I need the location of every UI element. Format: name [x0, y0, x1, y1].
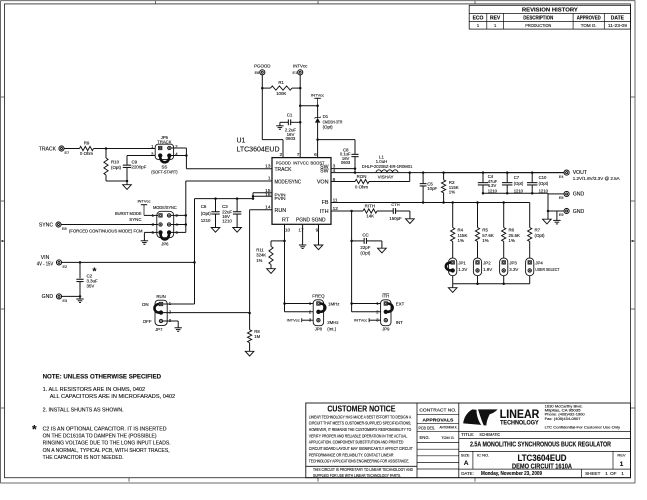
svg-text:CIRCUIT BOARD LAYOUT MAY SIGNI: CIRCUIT BOARD LAYOUT MAY SIGNIFICANTLY A…	[309, 446, 413, 451]
svg-text:R9: R9	[84, 141, 90, 146]
svg-text:DHLP-2020BZ-ER-1R0M01: DHLP-2020BZ-ER-1R0M01	[362, 164, 413, 169]
svg-text:*: *	[32, 423, 37, 437]
svg-text:2.5A MONOLITHIC SYNCHRONOUS BU: 2.5A MONOLITHIC SYNCHRONOUS BUCK REGULAT…	[470, 441, 611, 448]
svg-text:BURST MODE: BURST MODE	[115, 211, 142, 216]
svg-text:C7: C7	[514, 175, 520, 180]
svg-text:ECO: ECO	[473, 15, 484, 21]
svg-text:JP1: JP1	[458, 261, 466, 266]
svg-text:E6: E6	[255, 71, 260, 75]
svg-text:LTC Confidential-For Customer: LTC Confidential-For Customer Use Only	[545, 425, 621, 430]
svg-text:OF: OF	[610, 471, 617, 476]
svg-text:PCB DES.: PCB DES.	[419, 426, 436, 431]
svg-text:JP9: JP9	[382, 327, 390, 332]
svg-text:1.2V: 1.2V	[458, 267, 467, 272]
svg-text:U1: U1	[237, 137, 246, 144]
svg-text:6.3V: 6.3V	[488, 183, 497, 188]
svg-text:REVISION HISTORY: REVISION HISTORY	[522, 7, 578, 13]
svg-text:APPROVED: APPROVED	[577, 15, 601, 21]
svg-text:LTC3604EUD: LTC3604EUD	[237, 146, 280, 153]
svg-text:(Opt): (Opt)	[514, 181, 524, 186]
svg-text:VERIFY PROPER AND RELIABLE OPE: VERIFY PROPER AND RELIABLE OPERATION IN …	[309, 433, 408, 438]
svg-text:ON THE DC1610A TO DAMPEN THE (: ON THE DC1610A TO DAMPEN THE (POSSIBLE)	[43, 434, 157, 440]
svg-text:ITH: ITH	[320, 209, 329, 215]
svg-text:ON: ON	[142, 302, 149, 307]
svg-text:A: A	[464, 460, 469, 467]
svg-text:1: 1	[268, 176, 271, 182]
svg-text:(Opt): (Opt)	[360, 250, 371, 255]
svg-text:JP8: JP8	[315, 327, 323, 332]
svg-text:35V: 35V	[87, 284, 95, 289]
svg-text:TECHNOLOGY APPLICATIONS ENGINE: TECHNOLOGY APPLICATIONS ENGINEERING FOR …	[309, 459, 410, 464]
svg-text:VISHAY: VISHAY	[378, 175, 394, 180]
svg-text:PGND: PGND	[296, 218, 310, 224]
svg-text:CUSTOMER NOTICE: CUSTOMER NOTICE	[327, 405, 395, 414]
svg-text:0603: 0603	[341, 160, 351, 165]
svg-text:(Opt): (Opt)	[323, 125, 334, 130]
svg-text:CONTRACT NO.: CONTRACT NO.	[419, 407, 456, 412]
svg-text:APPROVALS: APPROVALS	[422, 417, 454, 423]
svg-text:1%: 1%	[509, 238, 515, 243]
svg-text:E8: E8	[62, 227, 67, 231]
svg-text:1%: 1%	[458, 238, 464, 243]
svg-text:ITH: ITH	[382, 294, 389, 299]
svg-text:TOM G.: TOM G.	[441, 436, 454, 440]
svg-text:(Opt): (Opt)	[535, 233, 546, 238]
svg-text:2MHz: 2MHz	[327, 320, 338, 325]
svg-text:1210: 1210	[201, 218, 211, 223]
svg-text:JP4: JP4	[535, 261, 543, 266]
svg-text:JP3: JP3	[509, 261, 517, 266]
svg-text:1%: 1%	[482, 238, 488, 243]
svg-text:(FORCED CONTINUOUS MODE) FCM: (FORCED CONTINUOUS MODE) FCM	[69, 228, 143, 233]
svg-text:MODE/SYNC: MODE/SYNC	[153, 205, 177, 210]
svg-text:SYNC: SYNC	[39, 222, 53, 228]
svg-text:R1: R1	[278, 80, 284, 85]
svg-text:INTVcc: INTVcc	[137, 198, 150, 203]
svg-text:C2 IS AN OPTIONAL CAPACITOR. I: C2 IS AN OPTIONAL CAPACITOR. IT IS INSER…	[43, 427, 167, 433]
svg-text:VON: VON	[317, 179, 329, 185]
svg-text:TRACK: TRACK	[275, 167, 292, 173]
svg-text:100K: 100K	[276, 91, 286, 96]
svg-text:(Opt): (Opt)	[201, 211, 212, 216]
svg-text:FREQ: FREQ	[312, 294, 325, 299]
svg-text:DATE:: DATE:	[461, 471, 474, 476]
svg-text:ON A NORMAL, TYPICAL PCB, WITH: ON A NORMAL, TYPICAL PCB, WITH SHORT TRA…	[43, 448, 170, 454]
svg-text:CC: CC	[362, 233, 368, 238]
svg-text:RON: RON	[357, 174, 367, 179]
svg-text:C10: C10	[539, 175, 547, 180]
svg-text:1%: 1%	[449, 190, 455, 195]
svg-text:3.3V: 3.3V	[509, 267, 518, 272]
svg-text:(SOFT-START): (SOFT-START)	[151, 170, 178, 175]
svg-text:RUN: RUN	[275, 208, 287, 214]
svg-text:E7: E7	[65, 151, 70, 155]
svg-text:14: 14	[265, 205, 271, 211]
svg-text:1210: 1210	[539, 188, 549, 193]
svg-text:INTVcc: INTVcc	[287, 318, 300, 323]
svg-text:1. ALL RESISTORS ARE IN OHMS,: 1. ALL RESISTORS ARE IN OHMS, 0402	[43, 387, 146, 393]
svg-text:RT: RT	[282, 218, 290, 224]
svg-text:PGOOD: PGOOD	[254, 63, 270, 68]
svg-text:13: 13	[265, 163, 271, 169]
svg-text:1210: 1210	[488, 188, 498, 193]
svg-text:APPLICATION. COMPONENT SUBSTI: APPLICATION. COMPONENT SUBSTITUTION AND …	[309, 440, 404, 445]
svg-text:REV: REV	[617, 452, 626, 457]
svg-text:PGOOD: PGOOD	[276, 161, 291, 167]
svg-text:TITLE:: TITLE:	[461, 432, 474, 437]
svg-text:1: 1	[620, 461, 624, 468]
svg-text:(Int.): (Int.)	[327, 327, 337, 332]
svg-text:1.8V: 1.8V	[483, 267, 492, 272]
svg-text:E3: E3	[63, 299, 68, 303]
svg-text:10pF: 10pF	[427, 186, 437, 191]
svg-text:DESCRIPTION: DESCRIPTION	[523, 15, 553, 21]
svg-text:7: 7	[297, 152, 300, 158]
svg-text:NOTE: UNLESS OTHERWISE SPECIFI: NOTE: UNLESS OTHERWISE SPECIFIED	[43, 373, 162, 380]
svg-text:D1: D1	[323, 114, 329, 119]
svg-text:EXT: EXT	[396, 302, 405, 307]
svg-text:SCHEMATIC: SCHEMATIC	[479, 432, 500, 437]
svg-text:Fax: (408)434-0507: Fax: (408)434-0507	[545, 416, 582, 421]
svg-text:FB: FB	[322, 200, 329, 206]
svg-text:PRODUCTION: PRODUCTION	[525, 23, 551, 28]
svg-text:C3: C3	[222, 204, 228, 209]
svg-text:CMDSH-3TR: CMDSH-3TR	[323, 119, 343, 124]
svg-text:RUN: RUN	[156, 294, 166, 299]
svg-text:VOUT: VOUT	[573, 170, 588, 176]
svg-text:HOWEVER, IT REMAINS THE CUSTOM: HOWEVER, IT REMAINS THE CUSTOMER'S RESPO…	[309, 427, 412, 432]
svg-text:USER SELECT: USER SELECT	[535, 267, 559, 272]
svg-text:PERFORMANCE OR RELIABILITY. C: PERFORMANCE OR RELIABILITY. CONTACT LINE…	[309, 452, 394, 457]
svg-text:Monday, November 23, 2009: Monday, November 23, 2009	[481, 471, 542, 477]
svg-text:CTH: CTH	[391, 202, 399, 207]
svg-text:ENG.: ENG.	[420, 435, 430, 440]
svg-text:16: 16	[265, 192, 271, 198]
svg-text:E5: E5	[559, 196, 564, 200]
svg-text:2200pF: 2200pF	[132, 164, 147, 169]
svg-text:INTVcc: INTVcc	[311, 93, 324, 98]
svg-text:1210: 1210	[514, 188, 524, 193]
svg-text:E4: E4	[559, 175, 564, 179]
svg-text:E2: E2	[63, 265, 68, 269]
svg-text:TRACK: TRACK	[39, 146, 57, 152]
svg-text:ALL CAPACITORS ARE IN MICROFAR: ALL CAPACITORS ARE IN MICROFARADS, 0402	[50, 394, 176, 400]
svg-text:1.2V/1.8V/3.3V @ 2.5A: 1.2V/1.8V/3.3V @ 2.5A	[573, 176, 621, 182]
svg-text:SW: SW	[320, 169, 328, 175]
svg-text:0 Ohm: 0 Ohm	[355, 184, 369, 189]
svg-text:RINGING VOLTAGE DUE TO THE LON: RINGING VOLTAGE DUE TO THE LONG INPUT LE…	[43, 441, 171, 447]
svg-text:SUPPLIED FOR USE WITH LINEAR T: SUPPLIED FOR USE WITH LINEAR TECHNOLOGY …	[313, 473, 401, 478]
svg-text:1210: 1210	[222, 218, 232, 223]
svg-text:(Opt): (Opt)	[111, 165, 122, 170]
svg-text:TECHNOLOGY: TECHNOLOGY	[500, 420, 539, 427]
svg-text:1MHz: 1MHz	[328, 302, 339, 307]
svg-text:DATE: DATE	[611, 15, 625, 21]
svg-text:LINEAR TECHNOLOGY HAS MADE A B: LINEAR TECHNOLOGY HAS MADE A BEST EFFORT…	[309, 414, 411, 419]
svg-text:E1: E1	[293, 71, 298, 75]
svg-text:SIZE: SIZE	[461, 452, 470, 457]
svg-text:RITH: RITH	[365, 203, 375, 208]
svg-text:1: 1	[605, 471, 608, 477]
svg-text:22pF: 22pF	[360, 245, 370, 250]
svg-text:MODE/SYNC: MODE/SYNC	[275, 179, 302, 185]
svg-text:0603: 0603	[286, 136, 296, 141]
svg-text:THE CAPACITOR IS NOT NEEDED.: THE CAPACITOR IS NOT NEEDED.	[43, 455, 124, 461]
svg-text:JP2: JP2	[483, 261, 491, 266]
svg-text:C6: C6	[201, 204, 207, 209]
svg-text:REV: REV	[490, 15, 501, 21]
svg-text:2. INSTALL SHUNTS AS SHOWN.: 2. INSTALL SHUNTS AS SHOWN.	[43, 407, 124, 413]
svg-text:E9: E9	[559, 213, 564, 217]
svg-text:11-23-09: 11-23-09	[608, 23, 628, 28]
svg-text:TRACK: TRACK	[157, 139, 171, 144]
svg-text:*: *	[93, 267, 97, 278]
svg-text:GND: GND	[42, 294, 54, 300]
svg-text:JP6: JP6	[161, 241, 169, 246]
svg-text:6: 6	[314, 152, 317, 158]
svg-text:R10: R10	[111, 160, 120, 165]
svg-text:OFF: OFF	[143, 319, 152, 324]
svg-text:1M: 1M	[254, 334, 260, 339]
svg-text:IC NO.: IC NO.	[477, 452, 489, 457]
svg-text:1: 1	[621, 471, 624, 477]
svg-text:VIN: VIN	[41, 255, 50, 261]
svg-text:(Opt): (Opt)	[539, 181, 549, 186]
svg-text:GND: GND	[573, 209, 585, 215]
svg-text:1%: 1%	[256, 258, 262, 263]
svg-text:17: 17	[298, 228, 304, 234]
svg-text:150pF: 150pF	[389, 216, 402, 221]
svg-text:C1: C1	[287, 112, 293, 117]
svg-text:INTVcc: INTVcc	[293, 63, 308, 68]
svg-text:ANTONINA K.: ANTONINA K.	[440, 426, 458, 430]
svg-text:THIS CIRCUIT IS PROPRIETARY TO: THIS CIRCUIT IS PROPRIETARY TO LINEAR TE…	[313, 467, 413, 472]
svg-text:10: 10	[285, 228, 291, 234]
svg-text:0 Ohm: 0 Ohm	[80, 151, 94, 156]
svg-text:INT: INT	[396, 320, 403, 325]
svg-text:INTVCC: INTVCC	[293, 161, 309, 167]
svg-text:14K: 14K	[366, 214, 374, 219]
svg-text:PVIN: PVIN	[275, 196, 286, 201]
svg-text:SYNC: SYNC	[129, 217, 141, 222]
svg-text:4V - 15V: 4V - 15V	[37, 262, 54, 268]
svg-text:GND: GND	[573, 192, 585, 198]
svg-text:SHEET: SHEET	[585, 471, 601, 476]
svg-text:JP7: JP7	[155, 327, 163, 332]
svg-text:SGND: SGND	[312, 218, 326, 224]
svg-text:INTVcc: INTVcc	[354, 318, 367, 323]
svg-text:TOM G.: TOM G.	[581, 23, 597, 28]
svg-text:2: 2	[280, 152, 283, 158]
svg-text:CIRCUIT THAT MEETS CUSTOMER-SU: CIRCUIT THAT MEETS CUSTOMER-SUPPLIED SPE…	[309, 421, 411, 426]
